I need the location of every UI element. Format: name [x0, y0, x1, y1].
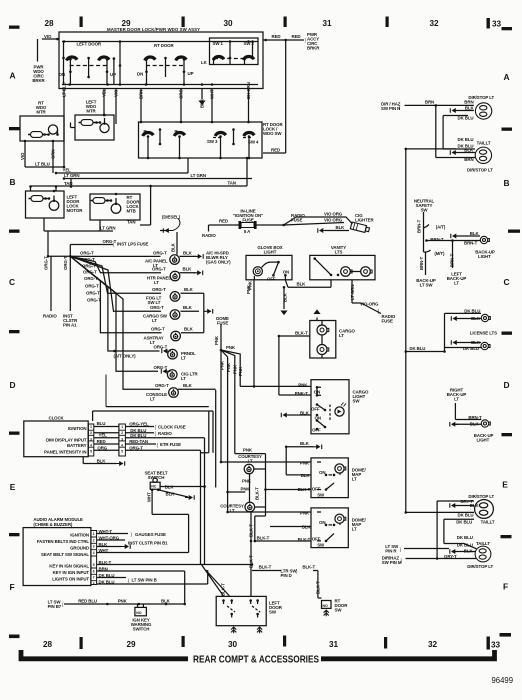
svg-text:DIR/STOP LT: DIR/STOP LT — [467, 564, 493, 569]
svg-text:WHT-T: WHT-T — [99, 529, 113, 534]
svg-text:BLK: BLK — [161, 598, 171, 603]
svg-text:BLK-T: BLK-T — [248, 524, 253, 537]
svg-text:(DIESEL): (DIESEL) — [162, 215, 181, 220]
svg-text:ORG-T: ORG-T — [153, 251, 167, 256]
svg-text:D: D — [9, 380, 15, 390]
svg-text:LT: LT — [352, 476, 357, 481]
svg-text:2: 2 — [90, 431, 92, 435]
svg-text:PNK: PNK — [233, 364, 238, 374]
svg-text:OFF: OFF — [312, 487, 321, 492]
svg-text:3: 3 — [93, 545, 95, 549]
svg-text:RED: RED — [219, 219, 228, 224]
svg-text:SW LT: SW LT — [148, 300, 161, 305]
svg-text:SW: SW — [353, 399, 361, 404]
svg-text:BLK-T: BLK-T — [255, 487, 260, 500]
svg-text:PNK: PNK — [241, 486, 251, 491]
svg-text:SW: SW — [317, 543, 325, 548]
svg-text:31: 31 — [329, 640, 339, 649]
svg-text:BLK: BLK — [471, 340, 481, 345]
svg-text:C: C — [9, 277, 15, 287]
svg-text:LIGHT: LIGHT — [264, 250, 277, 255]
svg-text:VIO-ORG: VIO-ORG — [360, 302, 379, 307]
svg-text:DK BLU: DK BLU — [99, 573, 115, 578]
svg-text:RT DOOR: RT DOOR — [154, 43, 174, 48]
svg-text:1: 1 — [121, 425, 123, 429]
svg-text:RED: RED — [271, 148, 280, 153]
svg-text:BRN: BRN — [139, 90, 144, 99]
svg-text:BLK: BLK — [300, 441, 310, 446]
svg-text:REAR COMPT & ACCESSORIES: REAR COMPT & ACCESSORIES — [193, 655, 319, 666]
svg-text:LT GRN: LT GRN — [64, 173, 79, 178]
svg-text:ORG: ORG — [97, 445, 107, 450]
svg-text:BLK-T: BLK-T — [298, 537, 311, 542]
svg-text:BLK: BLK — [283, 292, 288, 302]
svg-text:GRY-T: GRY-T — [444, 554, 457, 559]
svg-text:TAN: TAN — [64, 181, 72, 186]
svg-text:GAUGES FUSE: GAUGES FUSE — [135, 532, 166, 537]
svg-text:3: 3 — [121, 437, 123, 441]
svg-text:3: 3 — [90, 437, 92, 441]
svg-text:MTR: MTR — [36, 110, 46, 115]
svg-text:BLK-T: BLK-T — [295, 331, 308, 336]
svg-text:FUSE: FUSE — [242, 218, 253, 223]
svg-text:PNK: PNK — [243, 448, 253, 453]
svg-text:ON: ON — [319, 520, 325, 525]
svg-text:(A/T): (A/T) — [436, 225, 446, 230]
svg-text:SWITCH: SWITCH — [148, 475, 165, 480]
svg-text:B: B — [503, 178, 509, 188]
svg-text:BRN-T: BRN-T — [419, 256, 424, 270]
svg-text:NO: NO — [323, 604, 328, 608]
svg-text:ORG-T: ORG-T — [154, 365, 168, 370]
svg-text:4: 4 — [93, 551, 95, 555]
svg-text:96499: 96499 — [492, 676, 514, 685]
svg-text:GROUND: GROUND — [70, 546, 89, 551]
svg-text:IGNITION: IGNITION — [70, 533, 89, 538]
svg-text:RADIO: RADIO — [43, 314, 57, 319]
svg-text:BLK: BLK — [470, 231, 480, 236]
svg-text:LIGHT: LIGHT — [478, 254, 491, 259]
svg-text:PIN R: PIN R — [385, 549, 397, 554]
svg-text:}: } — [296, 569, 298, 574]
svg-text:PNK: PNK — [300, 460, 310, 465]
svg-text:SW: SW — [269, 610, 277, 615]
svg-text:E: E — [10, 482, 16, 492]
svg-text:LT GRN: LT GRN — [350, 285, 355, 300]
svg-text:A: A — [9, 71, 15, 81]
svg-text:DK BLU: DK BLU — [457, 543, 473, 548]
svg-text:DIR/STOP LT: DIR/STOP LT — [467, 168, 493, 173]
svg-text:BLK: BLK — [302, 524, 312, 529]
svg-text:LIGHTS ON INPUT: LIGHTS ON INPUT — [52, 576, 89, 581]
svg-text:F: F — [503, 582, 508, 592]
svg-text:LEFT DOOR: LEFT DOOR — [77, 42, 102, 47]
svg-text:PNK: PNK — [298, 383, 308, 388]
svg-text:BLK-T: BLK-T — [257, 536, 270, 541]
svg-text:BRKR: BRKR — [32, 78, 45, 83]
svg-text:ON: ON — [319, 470, 325, 475]
svg-text:4: 4 — [121, 444, 123, 448]
svg-text:LT BLU: LT BLU — [35, 162, 50, 167]
svg-text:MTR: MTR — [86, 109, 96, 114]
svg-text:LT: LT — [153, 263, 158, 268]
svg-text:OFF: OFF — [311, 406, 320, 411]
svg-text:31: 31 — [322, 19, 332, 28]
svg-text:PIN D: PIN D — [281, 573, 292, 578]
svg-text:BLK: BLK — [99, 542, 109, 547]
svg-text:LT SW: LT SW — [420, 283, 434, 288]
svg-text:FUSE: FUSE — [217, 321, 228, 326]
svg-text:UP: UP — [188, 71, 194, 76]
svg-text:29: 29 — [126, 640, 136, 649]
svg-text:LT SW PIN B: LT SW PIN B — [132, 578, 157, 583]
svg-text:BLK: BLK — [470, 503, 480, 508]
svg-text:PANEL INTENSITY IN: PANEL INTENSITY IN — [44, 450, 86, 455]
svg-text:LT: LT — [454, 281, 459, 286]
svg-text:SWITCH: SWITCH — [133, 627, 150, 632]
svg-text:BRN-T: BRN-T — [417, 219, 422, 233]
svg-text:RADIO: RADIO — [202, 233, 216, 238]
svg-text:1: 1 — [90, 425, 92, 429]
svg-text:RED: RED — [272, 34, 281, 39]
svg-text:ORG-T: ORG-T — [85, 284, 99, 289]
svg-text:(A/T ONLY): (A/T ONLY) — [114, 354, 137, 359]
svg-text:SW: SW — [335, 608, 343, 613]
svg-text:BLK: BLK — [183, 251, 193, 256]
svg-text:ON: ON — [283, 270, 289, 275]
svg-text:UP: UP — [110, 72, 116, 77]
svg-text:ORG-T: ORG-T — [63, 256, 68, 270]
svg-text:ON: ON — [315, 416, 321, 421]
svg-text:BLK: BLK — [470, 422, 480, 427]
svg-text:LIGHT: LIGHT — [477, 438, 490, 443]
svg-text:DK BLU: DK BLU — [458, 116, 474, 121]
svg-text:WDO SW: WDO SW — [263, 131, 282, 136]
svg-text:OFF: OFF — [312, 428, 321, 433]
svg-text:LT: LT — [154, 280, 159, 285]
svg-text:DK BLU: DK BLU — [458, 512, 474, 517]
svg-text:BLK: BLK — [465, 106, 475, 111]
svg-text:BLK: BLK — [471, 316, 481, 321]
svg-text:5: 5 — [121, 450, 123, 454]
svg-text:FUSE: FUSE — [382, 319, 393, 324]
svg-text:BRN-T: BRN-T — [468, 415, 482, 420]
svg-text:ORG-T: ORG-T — [44, 256, 49, 270]
svg-text:KEY IN IGN INPUT: KEY IN IGN INPUT — [53, 570, 90, 575]
svg-text:BLK: BLK — [97, 459, 107, 464]
svg-text:OFF: OFF — [267, 277, 276, 282]
svg-text:PNK: PNK — [226, 362, 231, 372]
svg-text:DIM DISPLAY INPUT: DIM DISPLAY INPUT — [46, 437, 87, 442]
svg-text:RADIO: RADIO — [158, 431, 172, 436]
svg-text:LK: LK — [201, 60, 208, 65]
svg-text:BLK: BLK — [183, 305, 193, 310]
svg-text:LT GRN: LT GRN — [191, 173, 206, 178]
svg-text:ORG-T: ORG-T — [83, 270, 97, 275]
svg-text:CLOCK FUSE: CLOCK FUSE — [158, 425, 186, 430]
svg-text:32: 32 — [429, 19, 439, 28]
svg-text:ETR FUSE: ETR FUSE — [160, 442, 181, 447]
svg-text:BLK: BLK — [297, 282, 307, 287]
svg-text:CLOCK: CLOCK — [49, 416, 65, 421]
svg-text:SEAT BELT SW SIGNAL: SEAT BELT SW SIGNAL — [41, 552, 89, 557]
svg-text:ORG-T: ORG-T — [81, 257, 95, 262]
svg-text:BLK-T: BLK-T — [298, 487, 311, 492]
svg-text:RED BLU: RED BLU — [78, 598, 97, 603]
svg-text:BLK-T: BLK-T — [302, 565, 315, 570]
svg-text:YEL: YEL — [99, 432, 108, 437]
svg-text:BRN: BRN — [464, 100, 473, 105]
svg-text:PNK: PNK — [118, 598, 128, 603]
svg-text:BLK: BLK — [300, 410, 310, 415]
svg-text:LT: LT — [181, 356, 186, 361]
svg-text:BRN: BRN — [99, 566, 108, 571]
svg-text:C: C — [503, 277, 509, 287]
svg-text:TAILLT: TAILLT — [477, 140, 491, 145]
svg-text:BLK: BLK — [183, 267, 193, 272]
svg-text:5: 5 — [93, 563, 95, 567]
svg-text:LIGHTER: LIGHTER — [355, 218, 374, 223]
svg-text:ORG-T: ORG-T — [87, 298, 101, 303]
svg-text:PNK: PNK — [214, 335, 219, 345]
svg-text:DN: DN — [137, 72, 143, 77]
svg-text:KEY IN IGN SIGNAL: KEY IN IGN SIGNAL — [49, 564, 89, 569]
svg-text:6: 6 — [93, 569, 95, 573]
svg-text:WHT-ORG: WHT-ORG — [99, 535, 120, 540]
svg-text:WHT: WHT — [147, 492, 152, 502]
svg-text:BLK-T: BLK-T — [315, 581, 320, 594]
svg-text:BRN: BRN — [464, 157, 473, 162]
svg-text:DK BLU: DK BLU — [99, 579, 115, 584]
svg-text:1: 1 — [93, 532, 95, 536]
svg-text:ON: ON — [314, 390, 320, 395]
svg-text:BLK-T: BLK-T — [259, 565, 272, 570]
svg-text:LT: LT — [152, 318, 157, 323]
svg-text:BRKR: BRKR — [307, 46, 320, 51]
svg-text:4: 4 — [90, 444, 92, 448]
svg-text:BLK: BLK — [184, 287, 194, 292]
svg-text:LT: LT — [352, 527, 357, 532]
svg-text:LT: LT — [150, 397, 155, 402]
svg-text:BRN-T: BRN-T — [450, 253, 455, 267]
svg-text:LTS: LTS — [335, 250, 343, 255]
svg-text:LT GRN: LT GRN — [100, 226, 115, 231]
svg-text:{: { — [157, 442, 159, 447]
svg-text:BLK: BLK — [301, 473, 311, 478]
svg-text:VIO: VIO — [20, 152, 25, 160]
svg-text:PNK: PNK — [226, 345, 236, 350]
svg-text:BLK: BLK — [200, 98, 205, 108]
svg-text:VIO: VIO — [114, 89, 119, 97]
svg-text:PNK-T: PNK-T — [295, 391, 308, 396]
svg-text:NO: NO — [136, 611, 141, 615]
svg-text:SW 4: SW 4 — [248, 140, 259, 145]
svg-text:{: { — [62, 602, 64, 607]
svg-text:FUSE: FUSE — [291, 217, 302, 222]
svg-text:(M/T): (M/T) — [434, 251, 445, 256]
svg-text:DK BLU: DK BLU — [458, 137, 474, 142]
svg-text:SW 2: SW 2 — [244, 41, 255, 46]
svg-text:PIN B7: PIN B7 — [48, 604, 62, 609]
svg-text:BLK-T: BLK-T — [99, 560, 112, 565]
svg-text:DN: DN — [59, 72, 65, 77]
svg-text:SW 3: SW 3 — [207, 139, 218, 144]
svg-text:MOTOR: MOTOR — [67, 208, 84, 213]
svg-text:LICENSE LTS: LICENSE LTS — [470, 331, 497, 336]
svg-text:TAILLT: TAILLT — [481, 519, 495, 524]
svg-text:DK BLU: DK BLU — [457, 535, 473, 540]
svg-text:ORG-T: ORG-T — [80, 251, 94, 256]
svg-text:28: 28 — [44, 19, 54, 28]
svg-text:ORG-YEL: ORG-YEL — [129, 422, 149, 427]
svg-text:RED: RED — [292, 34, 301, 39]
svg-text:33: 33 — [491, 641, 501, 650]
svg-text:SW PIN N: SW PIN N — [381, 106, 400, 111]
svg-text:DK BLU: DK BLU — [463, 346, 479, 351]
svg-text:DK BLU: DK BLU — [456, 519, 472, 524]
svg-text:(CHIME & BUZZER): (CHIME & BUZZER) — [33, 522, 73, 527]
svg-text:ORG-T: ORG-T — [151, 327, 165, 332]
svg-text:BRN: BRN — [425, 100, 434, 105]
svg-text:}: } — [401, 558, 403, 563]
svg-text:{: { — [155, 425, 157, 430]
svg-text:PNK: PNK — [248, 280, 253, 290]
svg-text:LT: LT — [181, 376, 186, 381]
svg-text:VIO: VIO — [44, 34, 52, 39]
svg-text:MTB: MTB — [127, 209, 136, 214]
svg-text:YEL: YEL — [63, 168, 72, 173]
svg-text:ORG-T: ORG-T — [129, 445, 143, 450]
svg-text:DK BLU: DK BLU — [464, 308, 480, 313]
svg-text:FASTEN BELTS IND CTRL: FASTEN BELTS IND CTRL — [37, 539, 90, 544]
svg-text:PNK: PNK — [300, 510, 310, 515]
svg-text:PNK: PNK — [220, 360, 225, 370]
svg-text:TAN: TAN — [228, 181, 236, 186]
svg-text:LT: LT — [454, 397, 459, 402]
svg-text:BLK: BLK — [166, 492, 176, 497]
svg-text:ORG-T: ORG-T — [152, 287, 166, 292]
svg-text:BLK: BLK — [464, 548, 474, 553]
svg-text:5 A: 5 A — [244, 229, 251, 234]
svg-text:BLK: BLK — [165, 484, 175, 489]
svg-text:BLK-T: BLK-T — [221, 583, 226, 596]
svg-text:}: } — [400, 547, 402, 552]
svg-text:2: 2 — [121, 431, 123, 435]
svg-text:PNK: PNK — [242, 478, 252, 483]
svg-text:WHT: WHT — [99, 548, 109, 553]
svg-text:F: F — [9, 582, 14, 592]
svg-text:33: 33 — [492, 19, 502, 28]
svg-text:2: 2 — [93, 538, 95, 542]
svg-text:LT BLU: LT BLU — [62, 82, 67, 97]
svg-text:}: } — [131, 532, 133, 537]
svg-text:ORG-T: ORG-T — [82, 264, 96, 269]
svg-text:{: { — [128, 578, 130, 583]
svg-text:BRN-T: BRN-T — [430, 237, 444, 242]
svg-text:5: 5 — [90, 450, 92, 454]
svg-text:IGNITION: IGNITION — [68, 426, 87, 431]
svg-text:30: 30 — [228, 640, 238, 649]
svg-text:ORG-T: ORG-T — [154, 345, 168, 350]
svg-text:BLK: BLK — [171, 242, 176, 252]
svg-text:OFF: OFF — [312, 536, 321, 541]
svg-text:WHT: WHT — [210, 89, 215, 99]
svg-text:INST LPS FUSE: INST LPS FUSE — [117, 242, 149, 247]
svg-text:INST CLSTR PIN B1: INST CLSTR PIN B1 — [128, 541, 168, 546]
svg-text:BLK: BLK — [336, 225, 346, 230]
svg-text:SW 1: SW 1 — [213, 41, 224, 46]
svg-text:32: 32 — [428, 640, 438, 649]
svg-text:VIO ORG: VIO ORG — [324, 218, 343, 223]
svg-text:PIN A1: PIN A1 — [63, 323, 77, 328]
svg-text:ORG-T: ORG-T — [155, 383, 169, 388]
svg-text:TAN: TAN — [127, 220, 135, 225]
svg-text:VIO ORG: VIO ORG — [324, 212, 343, 217]
svg-text:DK BLU: DK BLU — [409, 346, 425, 351]
svg-text:LT: LT — [150, 340, 155, 345]
svg-text:BATTERY: BATTERY — [67, 443, 87, 448]
svg-text:DK BLU: DK BLU — [130, 433, 146, 438]
svg-text:YEL: YEL — [102, 88, 107, 97]
svg-text:28: 28 — [43, 640, 53, 649]
svg-text:ORG: ORG — [179, 89, 184, 99]
svg-text:7: 7 — [93, 576, 95, 580]
svg-text:{: { — [155, 431, 157, 436]
svg-text:BLK-T: BLK-T — [248, 555, 253, 568]
svg-text:GRN: GRN — [51, 150, 56, 159]
svg-text:ORG-T: ORG-T — [84, 276, 98, 281]
svg-text:LT: LT — [339, 333, 344, 338]
svg-text:RED: RED — [97, 439, 106, 444]
svg-text:A: A — [503, 72, 509, 82]
svg-text:LT: LT — [248, 459, 253, 464]
svg-text:MASTER DOOR LOCK/PWR WDO SW AS: MASTER DOOR LOCK/PWR WDO SW ASSY — [107, 27, 200, 32]
svg-text:SW: SW — [317, 493, 325, 498]
svg-text:BRN-T: BRN-T — [464, 240, 478, 245]
svg-text:HTR PANEL: HTR PANEL — [147, 276, 171, 281]
svg-text:RED-TAN: RED-TAN — [129, 439, 148, 444]
svg-text:E: E — [502, 480, 508, 490]
svg-text:SW PIN M: SW PIN M — [382, 560, 402, 565]
svg-text:BLK: BLK — [183, 383, 193, 388]
svg-text:ORG-T: ORG-T — [86, 291, 100, 296]
svg-text:PNK: PNK — [238, 366, 243, 376]
svg-text:(GAS ONLY): (GAS ONLY) — [206, 260, 231, 265]
svg-text:D: D — [503, 380, 509, 390]
svg-text:8: 8 — [93, 582, 95, 586]
svg-text:BLU: BLU — [97, 421, 106, 426]
svg-text:DK GRN: DK GRN — [246, 82, 251, 99]
svg-text:BLK: BLK — [184, 327, 194, 332]
svg-text:30: 30 — [223, 19, 233, 28]
svg-text:NC: NC — [151, 485, 156, 489]
svg-text:BLK: BLK — [464, 148, 474, 153]
svg-text:ORG-T: ORG-T — [150, 305, 164, 310]
svg-text:SW: SW — [421, 208, 429, 213]
svg-text:B: B — [9, 177, 15, 187]
svg-text:TAILLT: TAILLT — [476, 541, 490, 546]
svg-text:ORG-T: ORG-T — [103, 239, 117, 244]
